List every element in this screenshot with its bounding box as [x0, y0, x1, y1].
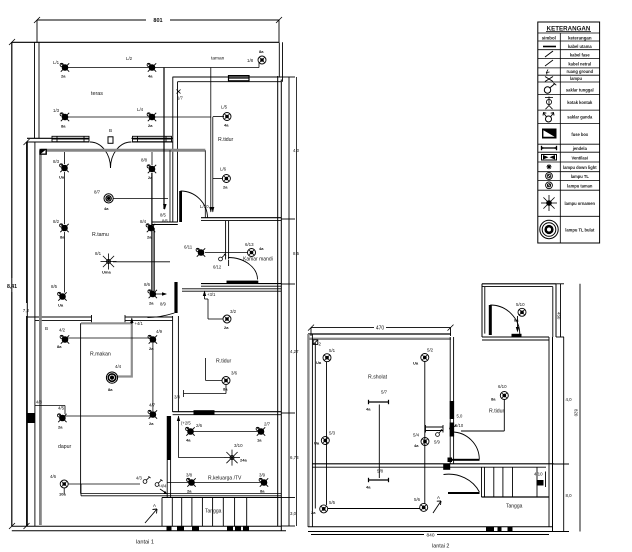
lamp L/5 [221, 105, 231, 128]
svg-text:B: B [109, 128, 112, 133]
wire from star 8/1 right [113, 261, 170, 263]
lamp 8/3 [53, 159, 69, 180]
lamp 3/9 [259, 473, 268, 494]
lamp 4/9 [148, 329, 163, 351]
svg-text:4,27: 4,27 [290, 349, 299, 354]
svg-text:4,0: 4,0 [293, 148, 300, 153]
svg-text:3/9: 3/9 [259, 473, 266, 478]
svg-text:8/9: 8/9 [160, 302, 166, 307]
wire 6/10 down-left [461, 400, 504, 432]
svg-text:6/12: 6/12 [213, 265, 222, 270]
lamp 8/7 (ring) [94, 190, 113, 212]
svg-text:Tangga: Tangga [205, 509, 222, 515]
svg-text:4/8: 4/8 [36, 400, 42, 405]
svg-text:teras: teras [91, 91, 103, 97]
door R.tidur L2: leaf (black bar) [452, 459, 480, 461]
wire 8/2 to 8/5 [64, 232, 66, 293]
svg-text:8a: 8a [259, 49, 264, 54]
lamp 5/4 [413, 433, 429, 449]
svg-text:Ua: Ua [58, 303, 64, 308]
svg-text:2a: 2a [61, 74, 66, 79]
lamp L/1 [53, 60, 69, 79]
svg-text:4/2: 4/2 [59, 328, 66, 333]
lamp 3/2 (ring) [223, 309, 237, 330]
svg-text:5/8: 5/8 [377, 469, 384, 474]
svg-text:4/10: 4/10 [534, 472, 543, 477]
dim right of upper room [556, 284, 564, 337]
row kabel fase [538, 51, 600, 58]
svg-text:R.keluarga /TV: R.keluarga /TV [208, 476, 242, 482]
lamp 8/4 [140, 219, 155, 240]
lamp 8/6 [144, 282, 157, 306]
svg-text:2a: 2a [187, 489, 192, 494]
svg-text:fuse box: fuse box [571, 132, 589, 137]
arrow +8/3 at R.tidur2 wall [203, 291, 216, 300]
svg-text:820: 820 [574, 409, 579, 417]
svg-text:keterangan: keterangan [568, 36, 592, 41]
wire drops in R.tamu wall (8/5, 8/6 arrows) [160, 68, 170, 224]
legend table frame [538, 22, 600, 243]
kabel utama (thick gray) horizontal [41, 149, 205, 152]
wire drop from R.makan wall down to dapur run [80, 323, 82, 493]
svg-text:8a: 8a [260, 489, 265, 494]
dimension 840 (bottom lantai 2) [311, 533, 549, 539]
svg-text:2/6: 2/6 [196, 423, 203, 428]
center dividing wall (double with black bars) [448, 337, 455, 464]
wire L/5 [213, 116, 224, 118]
svg-text:R.tidur: R.tidur [216, 359, 232, 365]
svg-text:A: A [437, 495, 440, 500]
svg-text:5/2: 5/2 [427, 348, 434, 353]
window left (jendela) [52, 136, 89, 141]
R.tidur L2 top wall (double) [482, 337, 549, 340]
svg-text:801: 801 [153, 18, 162, 24]
fuse box (lantai 1) [40, 149, 47, 155]
lamp 5/2 [413, 348, 434, 366]
svg-text:4/4: 4/4 [115, 364, 122, 369]
teras left wall (double) [35, 42, 40, 138]
lamp 1/8 taman [247, 49, 266, 64]
star lamp 3/10 (ornamen) [224, 443, 247, 466]
switch 5/9 [434, 429, 443, 444]
bottom outer wall lantai 1 (double) [12, 526, 286, 531]
wire stub left of switch 5/9 [426, 425, 444, 433]
lamp 4/7 [148, 403, 157, 427]
wire connecting jendela 5/7 and 5/8 [378, 405, 380, 479]
upper room window dark bar [512, 334, 522, 337]
svg-text:Ventilasi: Ventilasi [571, 156, 588, 161]
svg-text:A: A [153, 503, 156, 508]
svg-text:L/5: L/5 [221, 105, 228, 110]
dimension chain right of lantai 1 [281, 77, 300, 526]
svg-text:1/8: 1/8 [247, 58, 254, 63]
dapur / R.keluarga divider wall with black bar [167, 416, 170, 498]
svg-text:5/10: 5/10 [516, 302, 525, 307]
row fuse box [538, 129, 600, 145]
lamp L/4 [137, 107, 156, 128]
R.tidur2 bottom wall (double) [173, 412, 282, 415]
bottom wall column ticks (black) [167, 526, 250, 531]
R.tamu / R.makan dividing wall (double, with door gap) [27, 317, 172, 320]
svg-text:ruang ground: ruang ground [566, 69, 593, 74]
svg-text:4a: 4a [259, 246, 264, 251]
switch 5/10 arrow into wall [449, 423, 464, 429]
dimension line 8,41 (left, lantai 1) [7, 39, 17, 529]
dimension line 470 (top, lantai 2) [308, 325, 454, 336]
wire 5/10 down with arrow [516, 316, 519, 333]
wire teras row1 to taman lamp [154, 67, 259, 69]
svg-text:2a: 2a [58, 425, 63, 430]
svg-text:1/3: 1/3 [53, 108, 60, 113]
R.tidur2 door leaf (black) [174, 282, 177, 313]
svg-text:5/7: 5/7 [381, 390, 388, 395]
svg-text:4/7: 4/7 [149, 403, 156, 408]
svg-text:taman: taman [211, 56, 225, 62]
wire to lamp 3/6 [206, 358, 222, 381]
R.tidur2 bottom wall window (dark bar) [194, 410, 215, 415]
door B jamb mark [108, 137, 113, 144]
wire 3/6 to wall point 3/4 [174, 385, 226, 400]
row ventilasi [538, 155, 600, 163]
outer top wall (lantai 1) [12, 41, 279, 43]
svg-text:kabel utama: kabel utama [568, 44, 592, 49]
wire 8/3 to 8/2 [64, 172, 66, 224]
lamp 4/5 [58, 414, 67, 430]
door gap jamb marks [92, 315, 126, 322]
kabel utama gray to R.makan lamp 4/4 [81, 323, 132, 376]
svg-text:+4/4: +4/4 [158, 484, 167, 489]
corridor right wire [204, 150, 206, 217]
legend title KETERANGAN [546, 26, 591, 33]
lamp 8/8 [141, 158, 156, 181]
row kabel utama [538, 44, 600, 50]
svg-text:lampu down light: lampu down light [563, 165, 597, 170]
lamp 6/10 [491, 384, 508, 402]
wire 4/6 to right wall (double run) [64, 484, 281, 496]
legend header row [538, 33, 600, 41]
lamp 5/6 [414, 497, 428, 511]
svg-text:8,5: 8,5 [293, 251, 300, 256]
svg-text:1a: 1a [257, 438, 262, 443]
svg-text:8/5: 8/5 [51, 284, 58, 289]
svg-text:6/10: 6/10 [498, 384, 507, 389]
svg-text:L/2: L/2 [126, 56, 133, 61]
R.keluarga: arrow +2/5 [177, 416, 192, 426]
svg-text:4a: 4a [366, 485, 371, 490]
svg-text:2a: 2a [149, 346, 154, 351]
svg-text:24a: 24a [240, 458, 247, 463]
svg-text:4/3: 4/3 [136, 476, 142, 481]
svg-text:4a: 4a [366, 407, 371, 412]
lamp 5/3 [314, 431, 336, 446]
upper room right wall [553, 284, 556, 337]
svg-text:Uma: Uma [102, 270, 111, 275]
fuse box lantai 2 with label 4/10 [534, 472, 546, 488]
svg-text:8a: 8a [57, 344, 62, 349]
corner label 2 [313, 340, 321, 347]
double entry door arcs [90, 142, 111, 168]
svg-text:3/2: 3/2 [230, 309, 237, 314]
svg-text:4,0: 4,0 [566, 397, 573, 402]
row lampu down light [538, 164, 600, 171]
dim chain right of lantai 2 [553, 337, 573, 532]
svg-text:L/4: L/4 [137, 107, 144, 112]
switch 4/3 [136, 476, 151, 484]
svg-text:8/8: 8/8 [141, 158, 148, 163]
svg-text:saklar ganda: saklar ganda [567, 115, 593, 120]
svg-text:lampu: lampu [570, 76, 583, 81]
switch +4/4 [155, 479, 167, 494]
svg-text:5/10: 5/10 [455, 423, 464, 428]
row kotak kontak [538, 97, 600, 111]
kamar mandi bottom wall (double) [201, 284, 281, 287]
R.tidur2 top wall (double) [182, 289, 281, 291]
lamp 8/2 [53, 219, 69, 240]
riser wires to corridor (L/10) [200, 68, 214, 213]
svg-text:8/6: 8/6 [144, 282, 151, 287]
lamp L/6 [220, 167, 230, 190]
lantai 2 right wall (double) [549, 337, 553, 532]
svg-text:R.makan: R.makan [90, 352, 111, 358]
svg-text:8a: 8a [514, 318, 519, 323]
svg-text:3/8: 3/8 [186, 473, 193, 478]
svg-text:450: 450 [557, 312, 562, 320]
svg-text:saklar tunggal: saklar tunggal [566, 88, 594, 93]
jendela symbol 5/7 [366, 390, 389, 412]
upper room door leaf (black) [489, 305, 492, 335]
svg-text:R.tidur: R.tidur [489, 409, 505, 415]
door R.tidur L2 swing arc [452, 432, 480, 460]
window dark bar on left wall (dapur) [27, 413, 35, 423]
svg-text:3/6: 3/6 [231, 371, 238, 376]
lower door swing arc [444, 474, 480, 492]
svg-text:Ua: Ua [59, 175, 65, 180]
wire 2/6 to 2/7 [193, 431, 260, 433]
wire 8/8 down to 8/4 and 8/6 [152, 173, 154, 291]
lantai 2 top wall (double) [308, 334, 451, 339]
svg-text:L/1: L/1 [53, 60, 60, 65]
row lampu taman [538, 182, 600, 190]
dimension line 801 (top, lantai 1) [34, 17, 282, 42]
riser left (5/1-5/3-5/5) [326, 362, 328, 505]
svg-text:1/7: 1/7 [177, 96, 183, 101]
svg-text:R.tamu: R.tamu [92, 232, 109, 238]
lamp 1/3 [53, 108, 69, 129]
svg-text:lampu taman: lampu taman [567, 183, 593, 188]
lamp 5/1 [316, 348, 336, 365]
row ruang ground [538, 69, 600, 75]
hall door leaf (black) [179, 191, 182, 222]
R.tidur 1 top wall (double) [173, 77, 282, 82]
row saklar ganda [538, 113, 600, 124]
wire drop at lantai2 corner [314, 343, 316, 509]
svg-text:10a: 10a [59, 492, 66, 497]
svg-text:R.tidur: R.tidur [218, 137, 234, 143]
svg-text:2a: 2a [149, 301, 154, 306]
wire +2/5 riser to star [178, 424, 180, 458]
svg-text:8/5: 8/5 [160, 213, 166, 218]
lantai 2 left wall (double) [308, 334, 312, 527]
lamp 2/6 [186, 423, 203, 443]
row lampu [538, 76, 600, 82]
svg-text:8/6: 8/6 [162, 219, 168, 224]
wire teras row1 [67, 67, 150, 69]
row lampu ornamen [538, 195, 600, 216]
svg-text:4/9: 4/9 [156, 329, 163, 334]
svg-text:Ua: Ua [314, 441, 320, 446]
wire to star 3/10 [179, 457, 225, 459]
wire 6/11 to kamar mandi [205, 252, 248, 254]
star lamp 8/1 (ornamen) [95, 251, 117, 275]
svg-text:3/4: 3/4 [174, 395, 180, 400]
wire 5/5 to 5/6 [328, 508, 420, 510]
svg-text:R.sholat: R.sholat [368, 375, 388, 381]
hall door swing arc [181, 191, 208, 218]
lamp 3/6 (ring) [222, 371, 238, 392]
R.tidur2 door swing arc [148, 313, 175, 318]
svg-text:8/3: 8/3 [53, 159, 60, 164]
svg-text:8a: 8a [61, 124, 66, 129]
svg-text:8,0: 8,0 [566, 493, 573, 498]
lamp 8/5 [51, 284, 67, 308]
svg-text:4/5: 4/5 [58, 406, 65, 411]
svg-text:kotak kontak: kotak kontak [567, 100, 593, 105]
corridor end wall cap [152, 222, 178, 225]
right outer wall lantai 1 (double) [278, 76, 282, 531]
window on R.tidur1 top wall [229, 76, 250, 81]
wire L/6 [213, 178, 223, 180]
lamp 4/4 (TL bulat) [106, 364, 121, 392]
svg-text:8a: 8a [108, 387, 113, 392]
switch 6/12 [213, 254, 226, 270]
section arrow A (lantai 1) [145, 503, 157, 523]
svg-text:5/5: 5/5 [329, 500, 336, 505]
wire 3/8 to 3/9 [167, 482, 262, 484]
R.keluarga bottom wall line [162, 497, 281, 499]
window right (jendela) [133, 136, 172, 141]
svg-text:840: 840 [426, 533, 434, 539]
wire teras row2 to riser [154, 116, 211, 118]
svg-text:2a: 2a [311, 510, 316, 515]
svg-text:4/6: 4/6 [50, 474, 57, 479]
svg-text:Kamar mandi: Kamar mandi [243, 257, 273, 263]
svg-text:8/2: 8/2 [53, 219, 60, 224]
wall R.tamu right / R.tidur1 left (double) [173, 77, 178, 222]
R.tidur2 left wall (double) [173, 316, 179, 412]
svg-text:5,0: 5,0 [457, 414, 463, 419]
row saklar tunggal [538, 83, 600, 95]
svg-text:+4/1: +4/1 [135, 321, 144, 326]
svg-text:5/6: 5/6 [414, 497, 421, 502]
outer boundary wall left (lantai 1) [11, 42, 13, 526]
upper room left wall [482, 284, 485, 337]
svg-text:6,73: 6,73 [290, 455, 299, 460]
row kabel netral [538, 60, 600, 68]
jendela symbol 5/8 [366, 469, 389, 490]
svg-text:2a: 2a [224, 325, 229, 330]
wall between R.sholat and lower area (double) [312, 464, 553, 467]
svg-text:2/7: 2/7 [264, 422, 271, 427]
kabel utama (thick gray) vertical [39, 150, 42, 525]
svg-text:lampu ornamen: lampu ornamen [565, 201, 596, 206]
label 4/8 + wire [35, 400, 65, 415]
svg-text:5/3: 5/3 [329, 431, 336, 436]
svg-text:470: 470 [376, 326, 385, 332]
svg-text:dapur: dapur [58, 444, 72, 450]
svg-text:Ua: Ua [316, 360, 322, 365]
riser right (5/2-5/9-5/6) [424, 362, 426, 504]
lamp 6/13 kamar mandi [245, 242, 264, 257]
lamp 5/10 [514, 302, 526, 323]
svg-text:4a: 4a [104, 206, 109, 211]
row jendela [538, 146, 600, 152]
left house wall below teras (double) [27, 142, 35, 526]
svg-text:7,2: 7,2 [23, 308, 30, 313]
wire teras row2 [67, 116, 150, 118]
svg-text:+3/1: +3/1 [207, 292, 216, 297]
kamar mandi door arc [228, 258, 258, 280]
svg-text:8/7: 8/7 [94, 190, 101, 195]
svg-text:4a: 4a [186, 438, 191, 443]
svg-text:4a: 4a [224, 123, 229, 128]
svg-text:5/9: 5/9 [434, 440, 440, 445]
svg-text:5/4: 5/4 [413, 433, 420, 438]
wire 8/7 right [113, 197, 168, 199]
wire taman lamp stub [258, 62, 260, 68]
R.makan: arrow +4/1 [130, 318, 143, 327]
svg-text:2a: 2a [223, 185, 228, 190]
svg-text:3/10: 3/10 [234, 443, 243, 448]
row lampu TL bulat [540, 220, 595, 238]
svg-text:lantai 2: lantai 2 [432, 544, 449, 550]
svg-text:jendela: jendela [572, 146, 588, 151]
lamp 4/6 (ring) [50, 474, 68, 497]
lamp L/2 [126, 56, 156, 79]
svg-text:3,0: 3,0 [290, 511, 297, 516]
dim overall height 820 (far right) [556, 284, 584, 532]
svg-text:8/4: 8/4 [140, 219, 147, 224]
svg-text:(+2/5: (+2/5 [181, 421, 191, 426]
svg-text:2a: 2a [148, 123, 153, 128]
kamar mandi left wall (double) [226, 221, 229, 260]
svg-text:B: B [45, 326, 48, 331]
wire 8/6 arrow right [156, 292, 167, 306]
svg-text:kabel fase: kabel fase [570, 53, 591, 58]
wire to lamp 3/2 [205, 299, 224, 319]
kamar mandi window dark bar [227, 281, 259, 284]
lamp 3/8 [186, 473, 196, 494]
svg-text:simbol: simbol [542, 36, 556, 41]
upper room (lantai 2 top right): top wall [482, 284, 556, 287]
svg-text:Ua: Ua [413, 361, 419, 366]
R.tidur1 bottom wall (double) [201, 218, 281, 221]
wire 4/5 to 4/7 [64, 415, 150, 417]
wire 8/3 up to kabel utama [64, 152, 66, 164]
wire 8/8 up to kabel utama [151, 152, 153, 165]
bottom wall ticks lantai 2 (black) [486, 527, 513, 532]
svg-text:lantai 1: lantai 1 [136, 540, 154, 546]
stairs lantai 2 [482, 467, 549, 497]
lantai 2 bottom wall (double) [308, 527, 553, 532]
lamp 4/2 [57, 328, 69, 350]
svg-text:2a: 2a [147, 235, 152, 240]
wire 4/2 to 4/9 [67, 337, 150, 339]
svg-text:lampu TL: lampu TL [571, 174, 590, 179]
row lampu TL [538, 173, 600, 181]
svg-text:4a: 4a [414, 443, 419, 448]
section arrow A (lantai 2) [433, 495, 441, 513]
svg-text:4a: 4a [148, 74, 153, 79]
